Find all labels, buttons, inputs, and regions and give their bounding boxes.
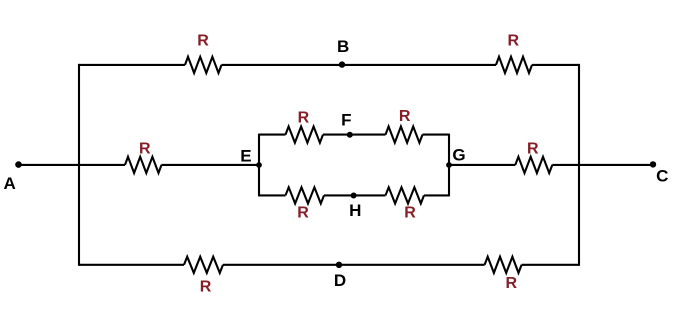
wire bridge top E-side: [259, 134, 286, 136]
resistor R bottom-left (value label R): [184, 257, 223, 296]
resistor R bridge-bot-2 (value label R): [386, 187, 425, 221]
node B junction dot: [339, 61, 345, 67]
resistor R bridge-top-2 (value label R): [386, 108, 423, 143]
resistor R bridge-bot-1 (value label R): [286, 187, 325, 221]
svg-text:R: R: [200, 279, 212, 296]
svg-text:F: F: [341, 110, 351, 129]
wire bridge bottom G-side: [424, 194, 449, 196]
wire G vertical stub: [448, 134, 450, 197]
wire right rail: [578, 64, 580, 266]
node E junction dot: [256, 162, 262, 168]
wire bridge top G-side: [423, 134, 450, 136]
svg-text:R: R: [139, 141, 151, 158]
svg-text:D: D: [334, 271, 346, 290]
wire bridge bottom E-side: [259, 194, 286, 196]
node G junction dot: [446, 162, 452, 168]
wire bottom-right segment: [522, 264, 579, 266]
wire E vertical stub: [258, 134, 260, 197]
svg-text:B: B: [337, 37, 349, 56]
svg-text:R: R: [298, 110, 310, 127]
resistor R top-left (value label R): [185, 32, 222, 73]
wire R mid-left to E: [162, 164, 260, 166]
node H junction dot: [351, 193, 357, 199]
svg-text:R: R: [508, 32, 520, 49]
svg-text:R: R: [399, 108, 411, 125]
svg-text:A: A: [4, 174, 16, 193]
resistor R top-right (value label R): [496, 32, 532, 73]
svg-text:R: R: [297, 205, 309, 222]
wire bottom-left segment: [79, 264, 184, 266]
wire left rail: [78, 64, 80, 266]
svg-text:E: E: [240, 146, 251, 165]
svg-text:R: R: [404, 204, 416, 221]
wire bottom-middle segment: [223, 264, 485, 266]
wire top-right segment: [532, 64, 579, 66]
node F junction dot: [347, 132, 353, 138]
wire top-middle segment: [222, 64, 497, 66]
resistor R bottom-right (value label R): [485, 257, 522, 293]
svg-text:R: R: [527, 140, 539, 157]
svg-text:G: G: [452, 145, 465, 164]
resistor R mid-left (value label R): [125, 141, 162, 173]
wire bridge top middle: [323, 134, 386, 136]
wire G to R mid-right: [449, 164, 515, 166]
node D junction dot: [336, 262, 342, 268]
resistor R mid-right (value label R): [515, 140, 552, 173]
svg-text:C: C: [656, 167, 668, 186]
resistor R bridge-top-1 (value label R): [286, 110, 324, 143]
wire A to R mid-left: [19, 164, 126, 166]
wire top-left segment: [79, 64, 185, 66]
node C junction dot: [650, 161, 656, 167]
svg-text:R: R: [197, 32, 209, 49]
svg-text:R: R: [506, 275, 518, 292]
wire bridge bottom middle: [324, 194, 386, 196]
node A junction dot: [15, 161, 22, 168]
wire R mid-right to C: [552, 164, 653, 166]
svg-text:H: H: [349, 201, 361, 220]
